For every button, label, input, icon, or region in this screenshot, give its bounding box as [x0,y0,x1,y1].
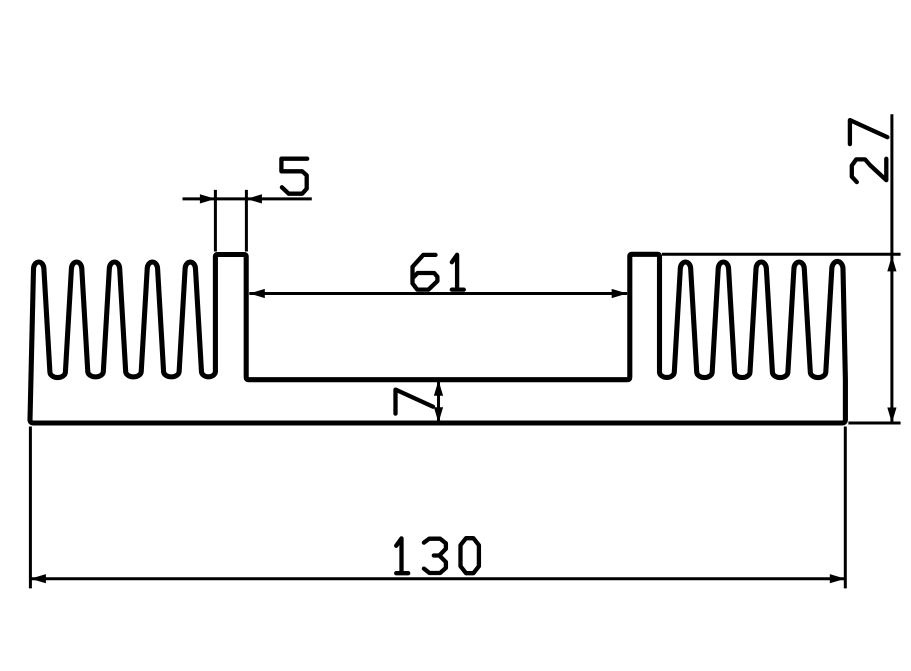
text "27" (dim 27, rotated) [852,159,887,182]
dim 5: extension lines [215,190,246,252]
dim 130: dimension line [30,577,845,580]
text "7" (dim 7, rotated) [396,390,434,414]
dim 7: dimension line [437,380,440,423]
heatsink profile outline [30,254,845,423]
dim 5: dimension line [183,197,312,200]
dim 130 arrowheads [30,574,46,583]
dim 130: extension lines [30,427,845,589]
text "61" (dim 61) [413,255,438,290]
text "130" (dim 130) [396,538,408,573]
dim 61 arrowheads [249,289,264,298]
dim 27: extension lines [662,254,901,423]
dim 27 arrowheads [887,256,896,272]
dim 7 arrowheads [434,380,443,396]
dim 61: dimension line [249,292,627,295]
dim 27: dimension line [890,114,893,423]
dim 5 arrowheads [200,194,216,203]
text "5" (dim 5) [281,159,307,194]
